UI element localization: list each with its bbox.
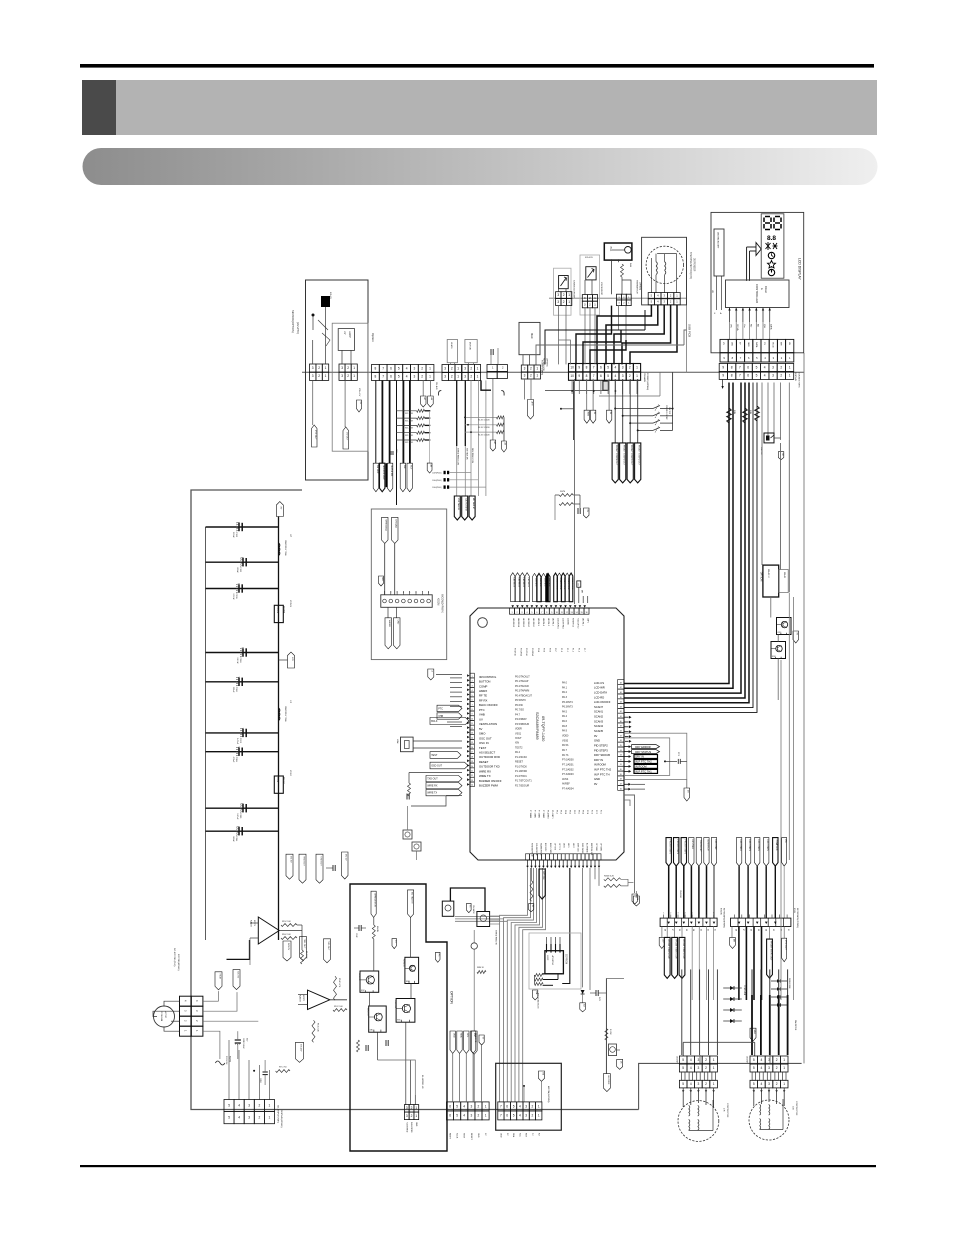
svg-text:9V: 9V: [594, 734, 597, 738]
EEPROM IC: [545, 951, 564, 974]
svg-text:8: 8: [546, 612, 547, 614]
svg-text:LA4/SEG4: LA4/SEG4: [517, 618, 520, 627]
svg-text:LCDCK/P4.1: LCDCK/P4.1: [557, 618, 559, 629]
rail branch capacitor C120: [206, 526, 279, 528]
bare arrows pins 15-16: [582, 596, 584, 603]
svg-text:5: 5: [228, 1116, 230, 1120]
svg-text:P4.5/SBOUR: P4.5/SBOUR: [515, 723, 529, 726]
svg-text:P7.4/AD04: P7.4/AD04: [562, 788, 574, 791]
svg-text:PA.8: PA.8: [562, 725, 568, 728]
svg-text:1: 1: [325, 374, 327, 378]
svg-text:1: 1: [325, 366, 327, 370]
svg-text:1: 1: [636, 366, 638, 370]
svg-text:1: 1: [713, 1066, 715, 1070]
svg-text:P2.2: P2.2: [595, 810, 597, 814]
footer rule: [80, 1165, 876, 1167]
svg-text:P9.5: P9.5: [543, 648, 545, 652]
svg-text:15: 15: [581, 612, 583, 614]
diode column B: [771, 980, 787, 982]
svg-text:1: 1: [511, 612, 512, 614]
svg-text:SIM TALK M5: SIM TALK M5: [465, 448, 468, 460]
svg-text:9: 9: [578, 374, 580, 378]
wire from strip B down x768-791: [761, 383, 763, 441]
svg-text:P7.0/AN0: P7.0/AN0: [529, 810, 532, 818]
svg-text:5: 5: [753, 1082, 755, 1086]
svg-text:R05M 3.2K: R05M 3.2K: [604, 876, 615, 878]
svg-text:C04H(P400): C04H(P400): [432, 473, 442, 475]
svg-text:1: 1: [538, 1104, 540, 1108]
svg-text:P6.4/INT4: P6.4/INT4: [562, 701, 573, 704]
svg-text:LRD(A)1: LRD(A)1: [395, 519, 398, 528]
svg-text:C83D 100uF: C83D 100uF: [242, 1038, 244, 1050]
svg-text:2: 2: [259, 1116, 261, 1120]
svg-text:2: 2: [629, 366, 631, 370]
svg-text:C04H(P400): C04H(P400): [432, 487, 442, 489]
svg-text:52: 52: [620, 759, 622, 761]
svg-text:VLCD: VLCD: [771, 342, 773, 348]
option wire to conn: [410, 1060, 412, 1105]
svg-text:R3M: R3M: [749, 410, 751, 415]
svg-text:19: 19: [471, 761, 473, 763]
svg-text:59: 59: [620, 726, 622, 728]
svg-text:OPT-EN2: OPT-EN2: [599, 843, 601, 851]
svg-text:TEST: TEST: [463, 1133, 465, 1139]
svg-text:R6T-12K9: R6T-12K9: [405, 428, 413, 430]
RESET wire: [443, 772, 462, 774]
step motor L wires: [682, 1088, 684, 1107]
svg-text:C050: C050: [239, 813, 241, 819]
svg-text:DATA: DATA: [755, 342, 758, 348]
right resistor taps: [465, 416, 497, 418]
pennant 9V right: [778, 452, 784, 460]
svg-text:4: 4: [406, 374, 408, 378]
svg-text:DRY SDOUB: DRY SDOUB: [594, 753, 610, 757]
svg-text:2: 2: [411, 1106, 413, 1110]
svg-text:STEP MOTOR: STEP MOTOR: [795, 1101, 797, 1116]
svg-text:06: 06: [678, 929, 680, 931]
svg-text:LCD-DATA: LCD-DATA: [594, 690, 607, 694]
svg-text:1: 1: [783, 1066, 785, 1070]
svg-text:2: 2: [532, 1113, 534, 1117]
step motor L coils: [689, 1105, 690, 1108]
regulator KIC12: [274, 776, 283, 793]
stereo-step switch lines: [637, 408, 653, 410]
svg-text:66: 66: [620, 692, 622, 694]
svg-text:LB3/SEG: LB3/SEG: [543, 578, 545, 587]
svg-text:3: 3: [622, 366, 624, 370]
thick wires to motor connectors L: [681, 969, 683, 1055]
svg-text:RF RX: RF RX: [479, 698, 488, 702]
caps above CN3: [490, 349, 492, 355]
svg-text:P7.1/AN1: P7.1/AN1: [533, 810, 536, 818]
svg-text:PA.9: PA.9: [562, 730, 568, 733]
svg-text:STEP MOTOR: STEP MOTOR: [726, 1103, 728, 1118]
rail branch capacitor C070: [206, 732, 279, 734]
sub pcb connector bus line: [549, 297, 687, 299]
right lower pin wires going down: [624, 795, 635, 893]
main bus line: [302, 371, 804, 373]
svg-text:49: 49: [620, 774, 622, 776]
svg-text:2: 2: [589, 302, 591, 306]
ION wires to bus: [584, 307, 586, 364]
jack resistor: [477, 971, 486, 974]
svg-text:TOUCH KEY: TOUCH KEY: [699, 840, 701, 853]
svg-text:LEV1: LEV1: [567, 843, 569, 848]
svg-text:9: 9: [578, 366, 580, 370]
LAMP UV box: [338, 329, 354, 351]
svg-text:LIVE TALK M: LIVE TALK M: [457, 498, 460, 510]
svg-text:3: 3: [341, 374, 343, 378]
svg-text:4: 4: [238, 1116, 240, 1120]
svg-text:P9.0/TxD: P9.0/TxD: [514, 648, 516, 657]
svg-text:R6T-12K9: R6T-12K9: [405, 435, 413, 437]
svg-text:5: 5: [753, 1066, 755, 1070]
ground bus vertical: [205, 527, 207, 940]
svg-text:5: 5: [607, 374, 609, 378]
svg-text:4: 4: [690, 1066, 692, 1070]
svg-text:SUB PCB: SUB PCB: [688, 324, 692, 337]
svg-text:7: 7: [593, 366, 595, 370]
svg-text:57: 57: [620, 735, 622, 737]
svg-text:PA.4: PA.4: [562, 715, 568, 718]
svg-text:3: 3: [524, 366, 526, 370]
photo diode: [312, 314, 315, 317]
svg-text:14: 14: [576, 612, 578, 614]
svg-text:GND: GND: [594, 739, 600, 743]
svg-text:WIRELESS M: WIRELESS M: [374, 893, 376, 907]
opamp resistors: [281, 924, 297, 927]
svg-text:2: 2: [780, 365, 782, 369]
pennant stack group1 above IC: [511, 573, 515, 602]
svg-text:P1.2/SCK0: P1.2/SCK0: [515, 756, 527, 759]
svg-text:SDA: SDA: [459, 1033, 462, 1038]
svg-text:PA.2: PA.2: [562, 691, 568, 694]
keyboard connector R single row: [731, 918, 791, 926]
micom pennant 1: [382, 517, 389, 543]
DC pennant: [357, 400, 362, 412]
step motor R circle: [749, 1100, 789, 1140]
svg-text:12: 12: [471, 728, 473, 730]
controller stubs: [729, 308, 731, 323]
micom pennant down 1: [387, 607, 389, 618]
svg-text:SCAN1: SCAN1: [594, 710, 603, 714]
svg-text:DRY IN: DRY IN: [635, 755, 644, 759]
svg-text:IC0501: IC0501: [289, 600, 291, 608]
svg-text:3: 3: [768, 1066, 770, 1070]
svg-text:KID-UV: KID-UV: [329, 292, 331, 299]
svg-text:P0.1/TACAP: P0.1/TACAP: [515, 680, 529, 683]
svg-text:P7.2/AN2: P7.2/AN2: [538, 810, 541, 818]
VHB flag: [437, 713, 462, 719]
svg-text:47: 47: [620, 784, 622, 786]
buzzer resistor: [605, 1029, 608, 1041]
svg-text:4: 4: [526, 612, 527, 614]
svg-text:MAX: MAX: [530, 333, 534, 339]
svg-text:P6.3/INT3: P6.3/INT3: [562, 706, 573, 709]
buzzer wires to bus crossing: [576, 306, 612, 365]
svg-text:GND: GND: [594, 777, 600, 781]
svg-text:LA3/SEG3: LA3/SEG3: [522, 618, 525, 627]
svg-text:0.47uF: 0.47uF: [236, 658, 238, 665]
svg-text:RLY: RLY: [410, 465, 412, 470]
svg-text:1: 1: [536, 366, 538, 370]
svg-text:LED STEP4: LED STEP4: [739, 840, 741, 852]
svg-text:TCLK1/P3.2: TCLK1/P3.2: [577, 618, 579, 628]
svg-text:FRONT STEP2: FRONT STEP2: [684, 840, 686, 855]
svg-text:P0.5/INT0: P0.5/INT0: [515, 699, 526, 702]
diode column A: [723, 987, 742, 989]
step motor R connector A: [750, 1056, 758, 1064]
svg-text:SENSOR(OPTION): SENSOR(OPTION): [291, 310, 295, 333]
left resistor taps R6T: [396, 410, 417, 412]
header gray title bar: [82, 80, 877, 135]
svg-text:EEPROM: EEPROM: [565, 954, 567, 964]
IC pin1 circle: [478, 618, 488, 628]
svg-text:P0.7/SO: P0.7/SO: [515, 709, 524, 712]
svg-text:P9.1/RxD: P9.1/RxD: [519, 648, 521, 657]
opamp wires: [279, 930, 302, 932]
svg-text:1: 1: [457, 366, 459, 370]
svg-text:P8.1: P8.1: [577, 810, 579, 814]
svg-text:56: 56: [620, 740, 622, 742]
svg-text:WIRED REMOCON: WIRED REMOCON: [457, 448, 459, 465]
svg-text:CN-RM: CN-RM: [746, 1056, 748, 1063]
svg-text:LAMP: LAMP: [348, 331, 351, 338]
svg-text:MICOM(14P/WH): MICOM(14P/WH): [547, 1086, 549, 1103]
option caps: [358, 925, 360, 931]
svg-text:TxD/WIRED: TxD/WIRED: [406, 1122, 408, 1133]
svg-text:3: 3: [248, 1104, 250, 1108]
svg-text:SCAN3: SCAN3: [594, 719, 603, 723]
UV module connector B: [339, 364, 345, 372]
TH sensor box MAX: [519, 322, 540, 354]
svg-text:3: 3: [698, 1066, 700, 1070]
svg-text:STEREO-STEP: STEREO-STEP: [665, 405, 667, 420]
conn6 jack connector: [447, 1102, 454, 1111]
svg-text:CN-MAIN: CN-MAIN: [643, 373, 646, 382]
svg-text:KEY/SW1: KEY/SW1: [691, 840, 693, 850]
jack thick L wires: [450, 888, 485, 912]
svg-text:SCLK: SCLK: [456, 1133, 458, 1139]
svg-text:D06H-D09H: D06H-D09H: [788, 978, 790, 989]
svg-text:PTC: PTC: [479, 708, 485, 712]
WIRE RX flag: [426, 783, 462, 789]
svg-text:PA.1: PA.1: [562, 686, 568, 689]
svg-text:P4.7: P4.7: [515, 713, 521, 716]
inductor L1: [278, 708, 279, 713]
svg-text:P7.3/AD03: P7.3/AD03: [562, 773, 574, 776]
ION diode box 2: [586, 267, 596, 280]
ion wires crossing: [559, 340, 571, 364]
svg-text:KID3M: KID3M: [282, 606, 284, 613]
svg-text:AVSS: AVSS: [562, 778, 569, 781]
svg-text:IR/CONTROL: IR/CONTROL: [479, 675, 497, 679]
svg-text:Driver: Driver: [764, 286, 768, 293]
svg-text:IN P PTC TH: IN P PTC TH: [594, 772, 610, 776]
svg-text:PA.7: PA.7: [562, 749, 568, 752]
CN-MICOM connector: [498, 1102, 504, 1111]
svg-text:DRY IN: DRY IN: [594, 758, 603, 762]
svg-text:BUTTON: BUTTON: [479, 680, 490, 684]
svg-text:24: 24: [471, 785, 473, 787]
svg-text:KID3M: KID3M: [437, 598, 440, 605]
svg-text:2: 2: [472, 681, 473, 683]
option pennant wireless: [371, 891, 376, 917]
svg-text:3: 3: [414, 374, 416, 378]
svg-text:1: 1: [415, 1114, 417, 1118]
option caps lower: [365, 1045, 367, 1051]
diode component right: [764, 433, 774, 443]
varistor: [471, 943, 477, 949]
svg-text:1: 1: [269, 1104, 271, 1108]
svg-text:R6T-12K9: R6T-12K9: [405, 442, 413, 444]
svg-text:10: 10: [570, 374, 574, 378]
svg-text:HUM: HUM: [218, 974, 220, 979]
svg-text:C070: C070: [239, 738, 241, 744]
svg-text:67: 67: [620, 687, 622, 689]
svg-text:DC 5V: DC 5V: [345, 854, 347, 861]
svg-text:9: 9: [722, 365, 724, 369]
svg-text:DC 5V: DC 5V: [289, 856, 291, 863]
svg-text:LED BACKLIGHT: LED BACKLIGHT: [717, 232, 720, 249]
svg-text:BLDC ON/OFF: BLDC ON/OFF: [479, 703, 498, 707]
LCD connector strip A: [720, 339, 728, 352]
svg-text:2: 2: [780, 373, 782, 377]
wires to CN-DISP: [228, 1040, 230, 1100]
LCD glass column box: [761, 214, 784, 278]
svg-text:50: 50: [620, 769, 622, 771]
option connector: [404, 1105, 409, 1113]
svg-text:d: d: [431, 671, 433, 672]
step motor L connector A: [679, 1056, 687, 1064]
svg-text:DM-DRIVE: DM-DRIVE: [794, 1020, 796, 1031]
svg-text:M4 LMP: M4 LMP: [376, 465, 378, 474]
svg-text:1: 1: [663, 913, 664, 915]
inductor L2: [278, 543, 279, 548]
svg-text:CN/JACK: CN/JACK: [472, 905, 475, 914]
long dark vertical to EEPROM: [569, 868, 571, 984]
svg-text:7: 7: [593, 374, 595, 378]
svg-text:68: 68: [620, 682, 622, 684]
svg-text:1: 1: [783, 1082, 785, 1086]
buzzer vertical line: [605, 978, 607, 1073]
svg-text:VDD0: VDD0: [562, 735, 569, 738]
svg-text:C120: C120: [235, 532, 237, 538]
connector strip CN3: [487, 365, 497, 372]
svg-text:OUTDOOR RXD: OUTDOOR RXD: [479, 755, 500, 759]
svg-text:1: 1: [536, 373, 538, 377]
svg-text:VDD: VDD: [453, 1033, 455, 1038]
svg-text:SUPLE MK: SUPLE MK: [390, 465, 392, 477]
svg-text:13: 13: [571, 612, 573, 614]
svg-text:3: 3: [521, 612, 522, 614]
IC top pin boxes: [510, 608, 515, 614]
svg-text:KRC102: KRC102: [358, 973, 360, 981]
svg-text:P0.0/TAOULT: P0.0/TAOULT: [515, 676, 530, 679]
step motor R gap stubs: [752, 1072, 756, 1080]
svg-text:1: 1: [485, 1113, 487, 1117]
svg-text:BUZ-DRV: BUZ-DRV: [544, 843, 546, 852]
micom IC S3C8489 outline: [470, 608, 624, 860]
svg-text:1: 1: [429, 366, 431, 370]
front step wires down: [614, 379, 616, 443]
svg-text:CAL ROOM M: CAL ROOM M: [465, 498, 468, 511]
header rounded gradient bar: [83, 148, 878, 185]
RA pennant below eeprom: [534, 989, 536, 991]
svg-text:FRONT STEP3: FRONT STEP3: [676, 840, 678, 855]
svg-text:2: 2: [705, 1058, 707, 1062]
svg-text:7: 7: [382, 374, 384, 378]
DC12V pennants: [283, 941, 291, 961]
svg-text:BUZZER: BUZZER: [607, 1076, 609, 1085]
svg-text:TEST2: TEST2: [515, 747, 523, 750]
keyboard pennant cluster upper L: [666, 838, 671, 867]
svg-text:3: 3: [471, 1113, 473, 1117]
svg-text:R4.3K 1/16DB: R4.3K 1/16DB: [478, 427, 490, 429]
fan connector grid: [180, 996, 192, 1006]
svg-text:9V: 9V: [594, 782, 597, 786]
svg-text:OPT/ON: OPT/ON: [542, 871, 544, 880]
svg-text:EL-WIRED-LD: EL-WIRED-LD: [421, 1075, 423, 1089]
svg-text:SCAN2: SCAN2: [594, 715, 603, 719]
svg-text:ZBM03D1 T2&H: ZBM03D1 T2&H: [284, 540, 286, 556]
svg-text:OSC IN: OSC IN: [479, 741, 489, 745]
svg-text:4: 4: [463, 1104, 465, 1108]
svg-text:P8.0: P8.0: [582, 810, 584, 814]
svg-text:DRY STATUS: DRY STATUS: [635, 750, 651, 754]
svg-text:IN ROOM: IN ROOM: [635, 765, 646, 769]
svg-text:OSC OUT: OSC OUT: [479, 736, 492, 740]
svg-text:1: 1: [415, 1106, 417, 1110]
svg-text:7: 7: [382, 366, 384, 370]
svg-text:1: 1: [594, 302, 596, 306]
svg-text:8: 8: [731, 365, 733, 369]
svg-text:OSD OUT: OSD OUT: [431, 765, 442, 768]
svg-text:3: 3: [584, 296, 586, 300]
svg-text:7: 7: [739, 373, 741, 377]
svg-text:R6T-12K9: R6T-12K9: [405, 413, 413, 415]
svg-text:8: 8: [586, 366, 588, 370]
svg-text:3: 3: [768, 1082, 770, 1086]
svg-text:5V: 5V: [479, 727, 483, 731]
svg-text:1: 1: [636, 374, 638, 378]
svg-text:RF TE: RF TE: [479, 694, 487, 698]
svg-text:6: 6: [699, 913, 700, 915]
svg-text:STEPPING MOTOR (P/D): STEPPING MOTOR (P/D): [689, 252, 691, 279]
svg-text:5: 5: [398, 366, 400, 370]
svg-text:10: 10: [556, 612, 558, 614]
svg-text:8: 8: [586, 374, 588, 378]
svg-text:05: 05: [685, 929, 687, 931]
svg-text:IN ROOM: IN ROOM: [594, 763, 607, 767]
MR pennant bottom right: [750, 1028, 756, 1041]
svg-text:DISP-DATA: DISP-DATA: [581, 843, 584, 854]
svg-text:OPTION: OPTION: [450, 991, 454, 1005]
svg-text:P1.1: P1.1: [566, 648, 568, 652]
svg-text:2: 2: [347, 374, 349, 378]
svg-text:3: 3: [341, 366, 343, 370]
svg-text:65: 65: [620, 697, 622, 699]
ION diode box 1: [559, 276, 569, 289]
svg-text:06: 06: [749, 929, 751, 931]
svg-text:2: 2: [421, 366, 423, 370]
svg-text:KIA7808: KIA7808: [760, 447, 763, 456]
svg-text:VENTILATION: VENTILATION: [479, 722, 497, 726]
svg-text:2: 2: [776, 1066, 778, 1070]
svg-text:2: 2: [705, 1066, 707, 1070]
svg-text:1: 1: [568, 300, 570, 304]
svg-text:2: 2: [259, 1104, 261, 1108]
